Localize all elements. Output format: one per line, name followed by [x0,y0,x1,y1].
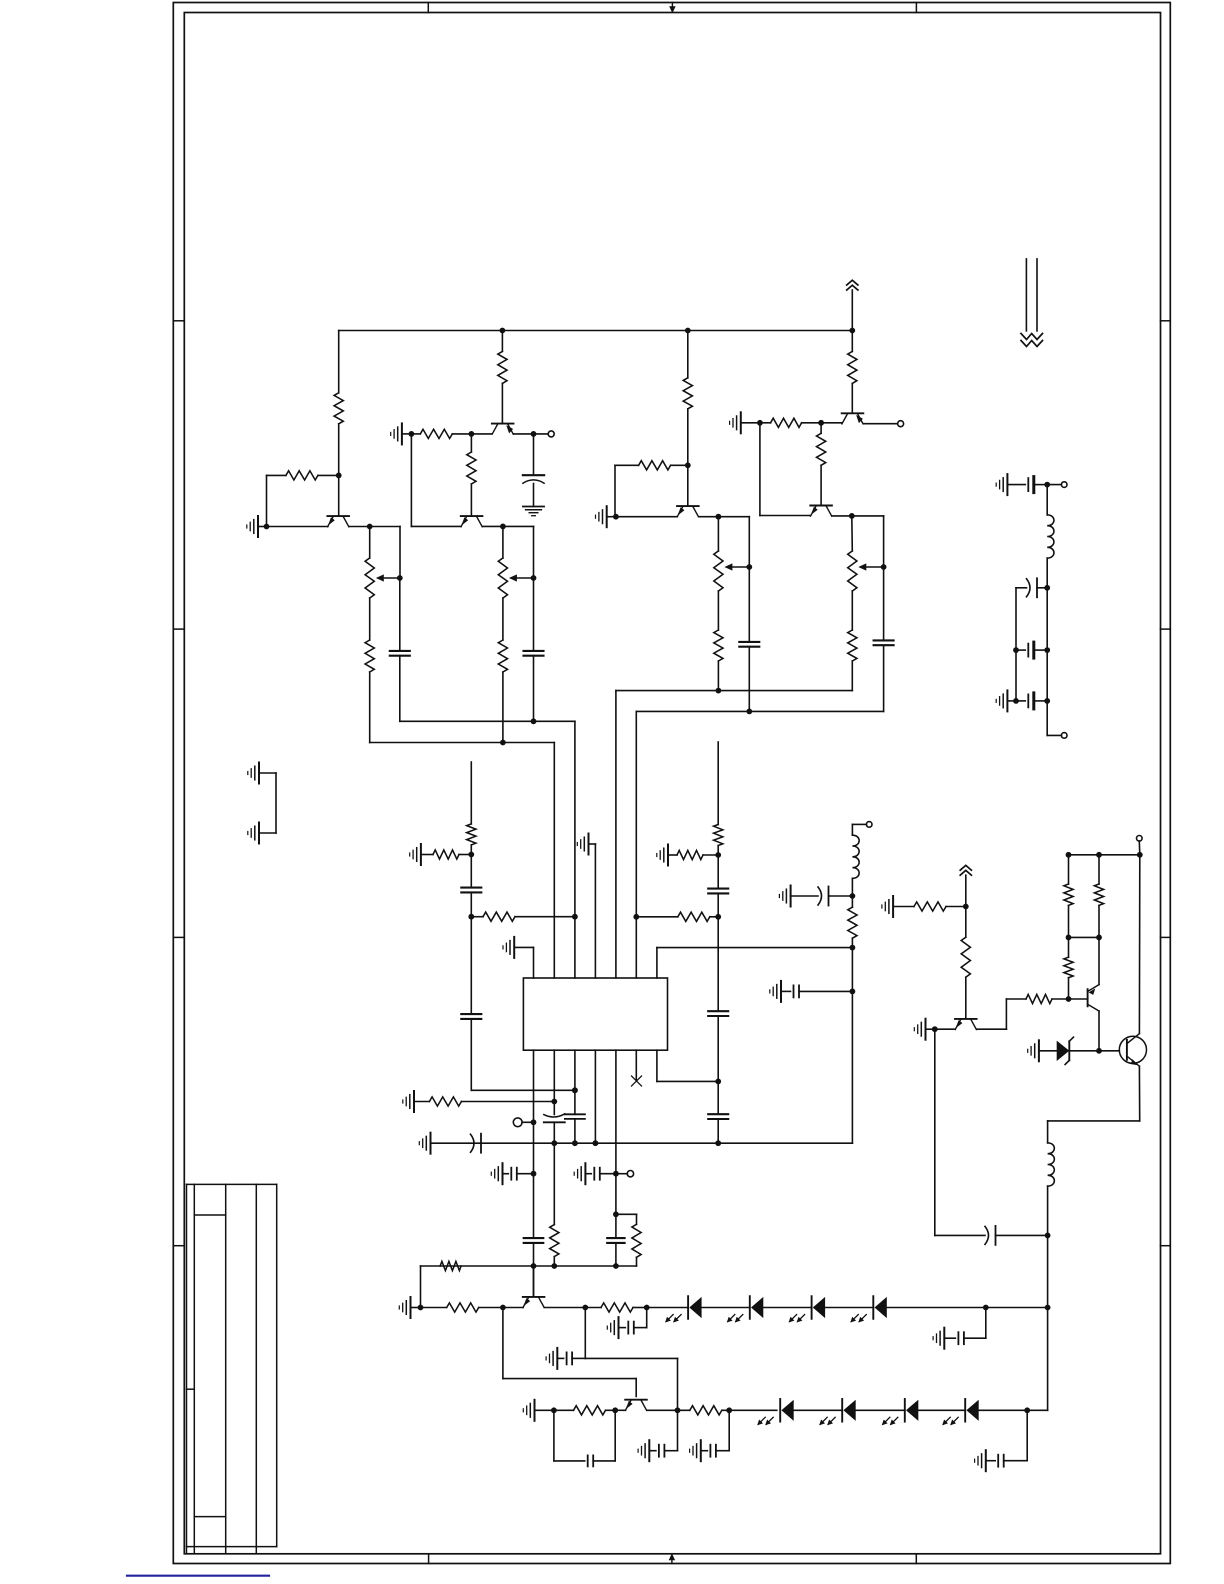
node N33 [531,1119,537,1125]
ground G21 + capacitor C21 [648,1440,650,1461]
ground G19 + capacitor C19 [943,1328,945,1349]
resistor R8 [683,378,692,409]
wire pin4 top [594,844,596,978]
terminal TP2 [898,421,904,427]
ground G2 [401,423,403,444]
wire bus1 corner pin3 [574,721,576,978]
wire pin6 stub [635,1050,637,1081]
wire N19 to Q5e [821,422,842,424]
node N54 [850,893,856,899]
terminal TP7 [1047,484,1061,486]
node N58 [932,1026,938,1032]
resistor R23 [440,1261,461,1270]
wire N18 drop [759,423,761,516]
capacitor C29 [1016,700,1025,702]
wire col852 a [851,948,853,992]
ground G23 + capacitor C23 [985,1450,987,1471]
resistor R4 [420,429,452,438]
wire L2 top [1047,1121,1049,1143]
node N5 [409,431,415,437]
ground G22 + capacitor C22 [700,1440,702,1461]
LED D2 [749,1296,751,1319]
wire B-bottom [399,656,401,722]
capacitor C5 [874,639,894,641]
wire Q9c up [1005,999,1007,1029]
node N69 [1013,647,1019,653]
wire Q8 base run [503,1378,636,1380]
ground G28 [1038,1040,1040,1061]
inductor L3 [1047,515,1054,558]
node N45 [582,1305,588,1311]
loop pin5 RC [616,1213,637,1215]
node N20 [849,513,855,519]
capacitor C14 [524,1237,544,1239]
node N71 [1013,698,1019,704]
terminal TP4 [616,1173,628,1175]
wire R1 top [338,331,340,393]
wire col-L top [470,762,472,824]
border tick bottom 1 [428,1554,430,1564]
transistor Q9 [955,1018,977,1020]
node N41 [613,1211,619,1217]
capacitor C11 [565,1113,585,1115]
resistor R18 [714,825,723,846]
resistor R15 [467,824,476,845]
wire Q7c [544,1307,601,1309]
border arrow bottom [671,1558,673,1564]
node N32 pin2 join [551,1099,557,1105]
node N57 [963,904,969,910]
wire bus2 corner pin2 [553,743,555,979]
wire pin5 bottom [615,1050,617,1143]
wire L3 top [1046,485,1048,515]
node N14 [716,514,722,520]
wire R9 left drop [614,465,616,516]
wire Q3c [482,525,533,527]
node N38 [531,1263,537,1269]
node N43 [418,1305,424,1311]
transistor Q5 [842,412,864,414]
node N8 [500,524,506,530]
LED D5 [779,1399,781,1422]
node rail-1 [500,328,506,334]
resistor R29 [914,902,946,911]
wire bus3 [616,690,852,692]
wire F-line [748,567,750,642]
ground G8 [420,844,422,865]
node N26 [715,852,721,858]
node N1 [336,473,342,479]
node N4 [397,575,403,581]
LED D1 [687,1296,689,1319]
resistor R22 pin2 [550,1225,559,1257]
wire B-line [399,578,401,651]
node N61 [1096,935,1102,941]
wire to Q7e [503,1307,523,1309]
wire pin7 bottom [656,1050,658,1081]
wire D1-D2 [702,1307,750,1309]
ground G20 [534,1400,536,1421]
ground G4 [606,506,608,527]
node N29 [715,1079,721,1085]
resistor R26 [574,1406,606,1415]
border tick left y629.1 [173,628,184,630]
resistor R31 [1026,994,1052,1003]
wire R32-R33 tie [1069,936,1100,938]
wire Q8c [647,1409,690,1411]
wire to Q8e [615,1409,625,1411]
resistor R19 [677,850,703,859]
wire E-mid [717,591,719,630]
wire R8 top [687,331,689,378]
node N51 [675,1407,681,1413]
potentiometer VR2 [498,558,507,598]
node N62 [1066,852,1072,858]
wire D8 out [979,1409,1048,1411]
border tick top 2 [915,3,917,13]
power symbol VCC2 [960,865,971,870]
transistor Q6 [810,505,832,507]
node N44 [500,1305,506,1311]
ground G11 pin4 [588,834,590,855]
wire Q9c [977,1028,1007,1030]
wire E-bottom [717,661,719,691]
trimmer capacitor CT1 [544,1114,565,1117]
wire N6 to Q2e [471,433,491,435]
node N16 [716,688,722,694]
border tick right y629.1 [1161,628,1171,630]
wire corner F-line top [748,517,750,567]
wire rowA corner [420,1266,422,1308]
border tick top 1 [427,3,429,13]
wire pin3 c [574,1119,576,1143]
capacitor C1 [390,650,410,652]
ground G5 [740,412,742,433]
wire F-bottom [748,647,750,712]
wire col-R top [717,742,719,825]
wire L1 bottom [851,878,853,896]
node N6 [469,431,475,437]
terminal TP3 [513,1118,522,1127]
node N47 [983,1305,989,1311]
node N60 [1066,935,1072,941]
ground G14 [430,1133,432,1154]
wire to Q6e [760,515,811,517]
wire Q4c [699,516,750,518]
node N64 [1137,852,1143,858]
wire C-line top [502,526,504,558]
power symbol VCC1 [847,280,858,285]
resistor R6 Q3 base [470,434,472,452]
capacitor C8 [708,888,728,890]
potentiometer VR3 [714,551,723,591]
wire N52 drop [728,1410,730,1450]
pot VR4 wiper [865,566,883,568]
ground G7 [258,823,260,844]
wire T5 base lead [687,465,689,505]
wire H-line [883,567,885,640]
polarized capacitor C24 [818,887,822,905]
wire Q5c out [863,423,897,425]
node N3 [367,524,373,530]
capacitor C7 [461,1013,481,1015]
ground G9 [667,845,669,866]
wire corner D-line top [533,526,535,578]
wire bus1 [400,720,575,722]
resistor R27 [690,1406,722,1415]
resistor R20 [678,912,710,921]
wire R2 left drop [266,475,268,526]
wire bracket [275,773,277,833]
ground G25 + capacitor C25 [780,981,782,1002]
capacitor C10 [708,1113,728,1115]
wire chain v1 [1046,588,1048,701]
IC U1 [523,978,667,1050]
wire bus3 corner pin5 [615,691,617,978]
wire D-bottom [533,656,535,722]
ground G18 + capacitor C18 [618,1317,620,1338]
resistor R9 [639,461,671,470]
node N39 [551,1263,557,1269]
resistor R11 [771,418,802,427]
wire A-mid [369,598,371,640]
wire pin1 bottom [533,1050,535,1122]
resistor R16 [433,850,459,859]
node N70 [1044,647,1050,653]
wire N51 drop [677,1410,679,1450]
wire pin1 c [533,1122,535,1238]
wire N47 drop [985,1308,987,1339]
ground G27 [925,1019,927,1040]
transistor Q7 [523,1296,545,1298]
node N15 [746,564,752,570]
node N12 [685,462,691,468]
node N23 [468,914,474,920]
border arrow top [671,3,673,9]
node N72 [1044,698,1050,704]
wire col-R d [717,1119,719,1143]
node N66 [1045,1233,1051,1239]
wire Q10e down [1098,1011,1100,1051]
wire G4 to Q4e [616,516,677,518]
node N53 [1024,1407,1030,1413]
resistor R5 Q2 base [501,331,503,352]
wire col-R b [717,893,719,1011]
wire L3 bottom [1046,558,1048,588]
wire chain v2 [1015,650,1017,701]
ground G26 [892,896,894,917]
ground G24 [790,886,792,907]
wire col852 b [851,991,853,1143]
node N35 [551,1140,557,1146]
wire pin3 bottom [574,1050,576,1114]
LED D6 [841,1399,843,1422]
transistor Q4 [677,505,699,507]
RC loop C20 [553,1410,555,1461]
wire D-line [533,578,535,651]
ground G30 [1006,690,1008,711]
node N48 [1045,1305,1051,1311]
wire A-line top [369,527,371,559]
wire G27 to Q9e [935,1028,955,1030]
wire Q11 base [1099,1050,1119,1052]
wire to Q3e [411,525,461,527]
resistor R32 [1068,978,1070,999]
node N49 [551,1407,557,1413]
wire N53 drop [1026,1410,1028,1460]
resistor R7 [498,640,507,672]
wire power rail [339,330,853,332]
node N55 [850,945,856,951]
capacitor C28 [1016,649,1025,651]
wire N44 drop [502,1308,504,1379]
wire C2 top [533,434,535,475]
wire pin5 c [615,1143,617,1238]
transistor Q3 [461,515,483,517]
node N34 [531,1171,537,1177]
wire pin5 d [615,1243,617,1266]
wire pin1 d [533,1243,535,1296]
wire Q6c [832,515,884,517]
LED D8 [964,1399,966,1422]
ground G29 [1006,474,1008,495]
wire pin2 c [553,1122,555,1224]
wire N58 drop [934,1029,936,1235]
earth ground G3 [523,506,544,508]
wire col-L b [470,892,472,1014]
resistor R12 Q5 base [851,331,853,352]
ground G1 [257,516,259,537]
pot VR2 wiper [516,577,534,579]
ground G13 + capacitor C12 [502,1163,504,1184]
ground G10 pin1 [513,937,515,958]
wire G-line top [851,516,854,551]
wire D3-D4 [825,1307,873,1309]
terminal TP1 [548,431,554,437]
antenna / off-page symbol [1025,259,1027,331]
node N7 [531,431,537,437]
wire pin1 top [533,947,535,978]
wire row2 corner up [1047,1308,1049,1411]
capacitor C9 [708,1010,728,1012]
inductor L2 [1048,1143,1055,1186]
resistor R1 [334,393,343,424]
LED D4 [872,1296,874,1319]
wire trim drop [1015,588,1017,650]
resistor R34 [1064,884,1073,905]
wire pin2 d [553,1257,555,1266]
border tick right y1245.7 [1161,1245,1171,1247]
wire pin4 bottom [594,1050,596,1143]
node N30 [715,1140,721,1146]
wire G-bottom [851,661,853,691]
pot VR3 wiper [731,566,749,568]
wire G1 to Q1e [267,526,328,528]
wire Q11e down [1138,1066,1140,1121]
wire R8 bottom [687,409,689,466]
capacitor C3 [524,650,544,652]
transistor Q1 [327,515,349,517]
wire col1047 [1047,1235,1049,1307]
resistor R21 [429,1097,461,1106]
wire L1 top [851,824,853,835]
wire rowA [421,1265,616,1267]
wire N5 drop [410,434,412,527]
wire T1 base lead [338,475,340,515]
wire corner H-line top [883,516,885,567]
capacitor C2 polarized [523,474,544,476]
wire Q10c up [1098,937,1100,984]
wire pin2 bottom [553,1050,555,1114]
capacitor C4 [739,641,759,643]
wire corner B-line top [399,527,401,579]
wire D2-D3 [763,1307,811,1309]
node rail-2 [685,328,691,334]
resistor R3 [365,640,374,672]
wire R1 bottom [338,424,340,476]
node N68 [1044,585,1050,591]
node N18 [757,420,763,426]
terminal TP8 [1061,733,1067,739]
polarized capacitor C26 [985,1226,989,1244]
capacitor C6 [461,887,481,889]
node N24 pin3 join [572,914,578,920]
wire Q2c out [514,433,549,435]
LED D3 [811,1296,813,1319]
transistor Q2 [492,423,514,425]
zener diode D9 [1057,1041,1070,1061]
title block [187,1183,277,1185]
node N37 [593,1140,599,1146]
border tick left y937.4 [173,936,184,938]
wire N45 drop [584,1308,586,1359]
wire to LED1 [647,1307,688,1309]
node N36 [572,1140,578,1146]
wire D5-D6 [794,1409,843,1411]
resistor R13 Q6 base [820,423,822,434]
node N50 [612,1407,618,1413]
polarized capacitor C13 [471,1134,475,1152]
resistor R33 [1094,884,1103,905]
wire N46 drop [646,1308,648,1328]
node N10 [500,740,506,746]
node N52 [726,1407,732,1413]
inductor L1 [852,835,859,878]
wire trim row [935,1234,985,1236]
wire col-L corner [471,1089,575,1091]
node N13 [613,514,619,520]
node N25 pin3 join2 [572,1087,578,1093]
node N31 [572,1087,578,1093]
border tick right y320.8 [1161,320,1171,322]
wire Q1c [349,526,400,528]
border tick left y320.8 [173,320,184,322]
node N42 [613,1263,619,1269]
node N11 [531,718,537,724]
resistor R10 [714,630,723,661]
resistor R28 [851,896,853,907]
wire G-mid [851,591,853,630]
wire top tie [1069,854,1140,856]
wire col-R a [717,846,719,889]
wire E-line top [717,517,719,551]
wire col-L c [470,1019,472,1090]
wire D4 out [887,1307,1048,1309]
ground G12 [413,1091,415,1112]
wire pin7 top [656,948,658,978]
resistor R24 [447,1303,479,1312]
node N19 [818,420,824,426]
